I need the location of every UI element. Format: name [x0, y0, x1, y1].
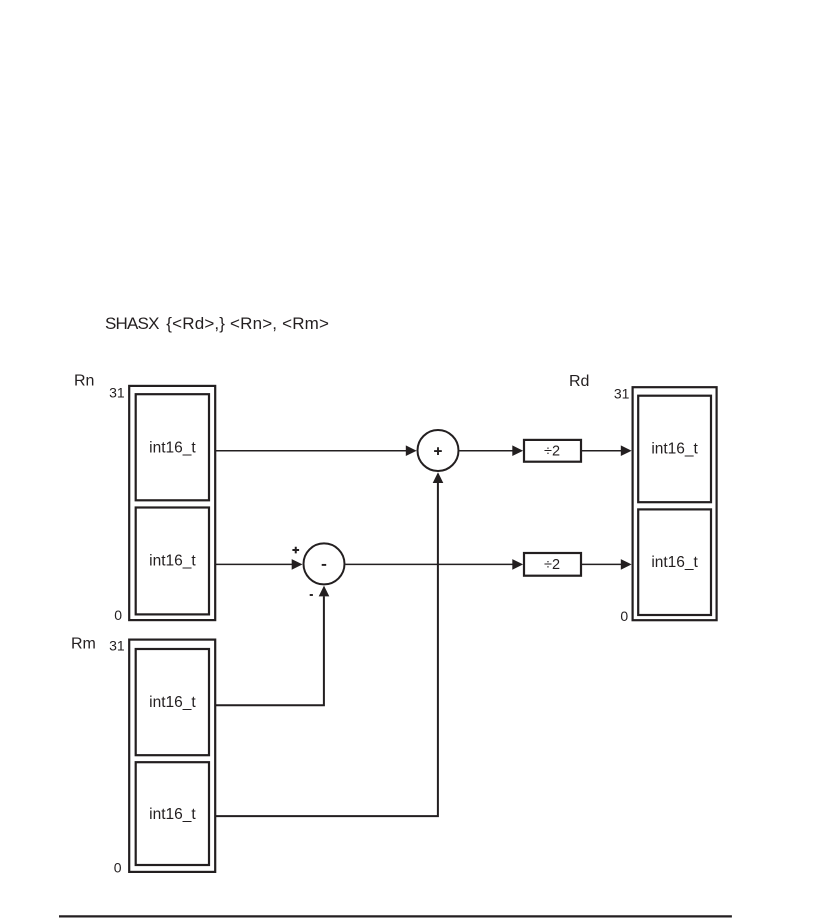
svg-text:int16_t: int16_t	[651, 441, 698, 458]
arrowhead into adder bottom	[433, 472, 444, 483]
Rd top halfword cell	[638, 396, 711, 503]
subtractor plus input label	[292, 547, 299, 554]
svg-text:Rm: Rm	[71, 636, 96, 653]
svg-text:0: 0	[114, 860, 122, 876]
wire subtractor to bottom divide box	[346, 563, 514, 565]
wire Rn bottom cell to subtractor	[215, 563, 293, 565]
Rm bottom halfword cell	[136, 762, 209, 865]
divide-by-two box bottom	[524, 553, 581, 576]
adder plus sign	[434, 447, 442, 455]
divide-by-two box top	[524, 440, 581, 462]
subtractor minus input label	[310, 594, 313, 596]
subtractor minus sign	[322, 564, 327, 566]
arrowhead into subtractor left	[292, 559, 303, 570]
svg-text:0: 0	[620, 608, 628, 624]
footer rule	[59, 915, 732, 917]
svg-text:{<Rd>,} <Rn>, <Rm>: {<Rd>,} <Rn>, <Rm>	[166, 314, 329, 333]
Rn top halfword cell	[136, 394, 209, 500]
arrowhead into Rd bottom cell	[621, 559, 632, 570]
arrowhead into subtractor bottom	[319, 586, 330, 597]
svg-text:÷2: ÷2	[544, 444, 560, 460]
svg-text:Rd: Rd	[569, 373, 589, 390]
Rn bottom halfword cell	[136, 508, 209, 615]
arrowhead into Rd top cell	[621, 445, 632, 456]
svg-text:Rn: Rn	[74, 373, 94, 390]
svg-text:int16_t: int16_t	[149, 439, 196, 456]
svg-text:31: 31	[614, 386, 630, 402]
svg-text:int16_t: int16_t	[149, 806, 196, 823]
arrowhead into adder left	[406, 445, 417, 456]
wire Rm top cell to subtractor bottom input	[215, 596, 324, 705]
wire top divide box to Rd top cell	[582, 450, 622, 452]
adder node circle	[418, 430, 459, 471]
wire Rm bottom cell to adder bottom input	[215, 483, 438, 816]
svg-text:31: 31	[109, 385, 125, 401]
Rm top halfword cell	[136, 649, 209, 755]
wire adder to top divide box	[460, 450, 514, 452]
svg-text:int16_t: int16_t	[149, 694, 196, 711]
wire Rn top cell to adder	[215, 450, 407, 452]
register Rm outer box	[129, 640, 215, 872]
wire bottom divide box to Rd bottom cell	[582, 563, 622, 565]
arrowhead into top divide box	[512, 445, 523, 456]
svg-text:int16_t: int16_t	[651, 554, 698, 571]
svg-text:31: 31	[109, 638, 125, 654]
register Rn outer box	[129, 386, 215, 620]
svg-text:0: 0	[114, 607, 122, 623]
register Rd outer box	[633, 387, 717, 620]
subtractor node circle	[304, 543, 345, 584]
svg-text:÷2: ÷2	[544, 557, 560, 573]
svg-text:SHASX: SHASX	[105, 314, 159, 333]
svg-text:int16_t: int16_t	[149, 553, 196, 570]
Rd bottom halfword cell	[638, 509, 711, 615]
arrowhead into bottom divide box	[512, 559, 523, 570]
